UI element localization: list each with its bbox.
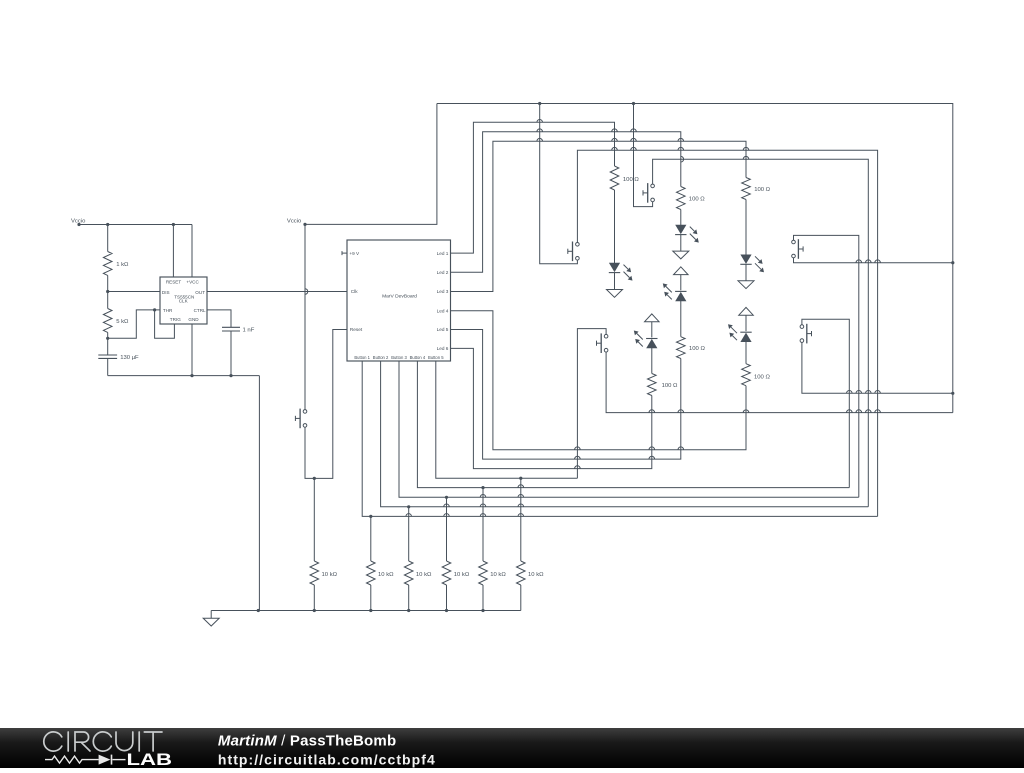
svg-text:OUT: OUT [195, 290, 205, 295]
svg-text:Led 2: Led 2 [437, 270, 449, 275]
svg-text:GND: GND [188, 317, 199, 322]
svg-text:+9 V: +9 V [349, 251, 360, 256]
svg-text:+VCC: +VCC [186, 280, 199, 285]
svg-text:MarV DevBoard: MarV DevBoard [382, 294, 417, 300]
svg-text:MartinM / PassTheBomb: MartinM / PassTheBomb [218, 733, 396, 750]
svg-text:THR: THR [163, 308, 173, 313]
svg-text:10 kΩ: 10 kΩ [416, 572, 432, 578]
svg-text:Vccio: Vccio [287, 219, 302, 225]
svg-text:TRIG: TRIG [170, 317, 181, 322]
svg-text:10 kΩ: 10 kΩ [454, 572, 470, 578]
svg-text:Reset: Reset [350, 327, 363, 332]
svg-text:5 kΩ: 5 kΩ [116, 319, 129, 325]
svg-text:10 kΩ: 10 kΩ [528, 572, 544, 578]
svg-text:100 Ω: 100 Ω [662, 383, 678, 389]
svg-text:Button 5: Button 5 [428, 355, 444, 360]
svg-text:100 Ω: 100 Ω [689, 346, 705, 352]
svg-text:DIS: DIS [162, 290, 170, 295]
svg-text:130 µF: 130 µF [120, 355, 139, 361]
svg-text:LAB: LAB [127, 751, 173, 768]
svg-text:Vccio: Vccio [71, 219, 86, 225]
svg-text:100 Ω: 100 Ω [689, 196, 705, 202]
svg-text:RESET: RESET [166, 280, 182, 285]
svg-text:Button 4: Button 4 [410, 355, 426, 360]
svg-text:10 kΩ: 10 kΩ [322, 572, 338, 578]
svg-text:Button 1: Button 1 [354, 355, 370, 360]
svg-text:Led 6: Led 6 [437, 346, 449, 351]
svg-text:Clk: Clk [351, 289, 358, 294]
svg-text:10 kΩ: 10 kΩ [378, 572, 394, 578]
svg-text:100 Ω: 100 Ω [623, 177, 639, 183]
svg-text:Button 3: Button 3 [391, 355, 407, 360]
svg-text:100 Ω: 100 Ω [754, 375, 770, 381]
svg-text:Led 1: Led 1 [437, 251, 449, 256]
svg-text:10 kΩ: 10 kΩ [490, 572, 506, 578]
svg-text:Led 3: Led 3 [437, 289, 449, 294]
svg-text:Button 2: Button 2 [373, 355, 389, 360]
svg-text:Led 4: Led 4 [437, 308, 449, 313]
svg-text:1 nF: 1 nF [243, 327, 255, 333]
svg-text:100 Ω: 100 Ω [754, 187, 770, 193]
svg-text:Led 5: Led 5 [437, 327, 449, 332]
svg-text:1 kΩ: 1 kΩ [116, 262, 129, 268]
svg-text:CLK: CLK [179, 299, 189, 304]
svg-text:http://circuitlab.com/cctbpf4: http://circuitlab.com/cctbpf4 [218, 752, 436, 768]
svg-text:CTRL: CTRL [194, 308, 206, 313]
